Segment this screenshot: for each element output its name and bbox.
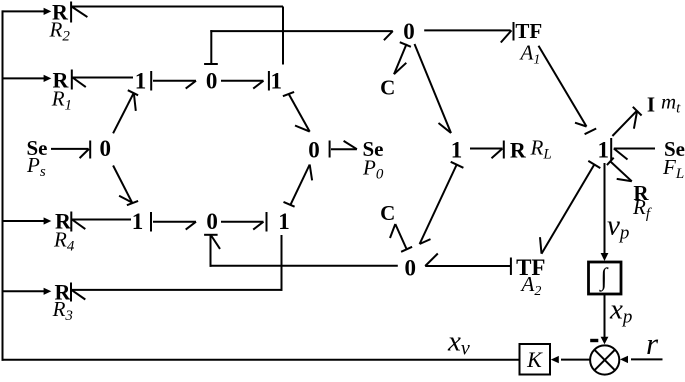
signal v_p from 1i to integrator (604, 163, 606, 254)
bond 0a to 1d (half-arrow + causal stroke at 1d) (113, 166, 132, 203)
bond Se F_L to 1i (half-arrow + causal stroke at 1i) (610, 138, 612, 160)
bond 1a to 0b (causal stroke at 1a, half-arrow at 0b) (150, 71, 152, 91)
bond 0f to 0g (half-arrow + causal stroke at 0g) (210, 265, 398, 267)
svg-text:A1: A1 (519, 41, 541, 68)
svg-text:R1: R1 (51, 87, 72, 114)
svg-text:TF: TF (515, 19, 542, 43)
svg-text:1: 1 (132, 209, 144, 234)
bond 0b to 0d (causal stroke at 0b, half-arrow at 0d) (204, 63, 218, 65)
signal arrow into R1 (3, 77, 46, 79)
svg-text:1: 1 (451, 137, 463, 162)
signal x_p from integrator to summer (604, 295, 606, 338)
bond 1d to R4 (causal stroke + half-arrow at R4) (70, 212, 72, 232)
svg-text:0: 0 (99, 136, 111, 161)
svg-text:xp: xp (609, 294, 632, 328)
minus sign (590, 339, 598, 342)
svg-text:0: 0 (308, 138, 320, 163)
bond 1i to I (half-arrow + causal stroke at I) (612, 110, 637, 136)
svg-text:RL: RL (530, 136, 552, 163)
bond 1f to 0e (causal stroke at 1f, half-arrow at 0e) (284, 202, 295, 207)
bond 0b to 1c (half-arrow + causal stroke at 1c) (221, 80, 264, 82)
bond 1a to R1 (causal stroke + half-arrow at R1) (71, 70, 73, 90)
wire x_v bottom horizontal (2, 359, 520, 361)
gain block K (520, 344, 551, 375)
bond Se to 0a (half-arrow + causal stroke at 0a) (51, 148, 89, 150)
bond 1g to R_L (half-arrow + causal stroke at R) (470, 148, 503, 150)
signal arrow into R3 (3, 290, 46, 292)
svg-text:1: 1 (278, 209, 290, 234)
bond 1g to 0f (causal stroke at 1g, half-arrow at 0f) (451, 162, 464, 168)
bond TF A1 to 1i (half-arrow + causal stroke at 1i) (539, 46, 587, 127)
bond 0d to 1g (half-arrow at 1g) (415, 44, 452, 133)
bond 1c to 0e (causal stroke at 1c, half-arrow at 0e) (283, 92, 294, 96)
svg-text:Rf: Rf (632, 195, 652, 222)
svg-text:C: C (380, 75, 395, 99)
bond 0d to TF A1 (half-arrow + causal stroke at TF) (424, 29, 510, 31)
bond 0d to C (causal stroke at 0d, half-arrow at C) (400, 42, 411, 47)
bond 1c to R2 (causal stroke + half-arrow at R2) (70, 2, 72, 23)
svg-text:0: 0 (206, 68, 218, 93)
signal r into summer (631, 358, 663, 360)
svg-text:1: 1 (598, 137, 610, 162)
svg-text:mt: mt (661, 90, 681, 117)
bond 0e to Se P0 (causal stroke at 0e, half-arrow at Se) (329, 141, 331, 158)
svg-text:1: 1 (270, 68, 282, 93)
signal summer to K (561, 359, 590, 361)
svg-text:0: 0 (403, 19, 415, 44)
svg-text:r: r (646, 326, 659, 361)
signal arrow into R4 (3, 220, 46, 222)
svg-text:0: 0 (405, 256, 417, 281)
bond 1i to TF A2 (causal stroke at 1i, half-arrow at TF) (588, 161, 600, 168)
summing junction (590, 345, 619, 374)
bond 1f to R3 (causal stroke + half-arrow at R3) (70, 283, 72, 302)
svg-text:I: I (647, 93, 655, 117)
bond 0f to C (half-arrow at C, causal stroke at 0f) (395, 224, 406, 249)
svg-text:0: 0 (206, 209, 218, 234)
svg-text:vp: vp (607, 210, 629, 244)
bond 1i to R_f (causal stroke at 1i, half-arrow at R) (607, 158, 614, 165)
svg-text:R4: R4 (53, 228, 75, 255)
wire x_v feedback left vertical (2, 10, 4, 360)
svg-text:∫: ∫ (598, 264, 608, 292)
bond 1d to 0g (causal stroke at 1d, half-arrow at 0g) (150, 212, 152, 232)
bond TF A2 to 0f (causal stroke at TF, half-arrow at 0f) (425, 265, 510, 267)
integrator block (589, 262, 622, 294)
svg-text:C: C (380, 201, 395, 225)
svg-text:R: R (510, 137, 527, 162)
svg-text:xv: xv (447, 326, 470, 360)
svg-text:1: 1 (135, 68, 147, 93)
bond 0g to 1f (half-arrow + causal stroke at 1f) (221, 221, 264, 223)
signal arrow into R2 (3, 10, 46, 12)
bond 0a to 1a (half-arrow + causal stroke at 1a) (113, 93, 134, 134)
svg-text:K: K (526, 347, 543, 372)
